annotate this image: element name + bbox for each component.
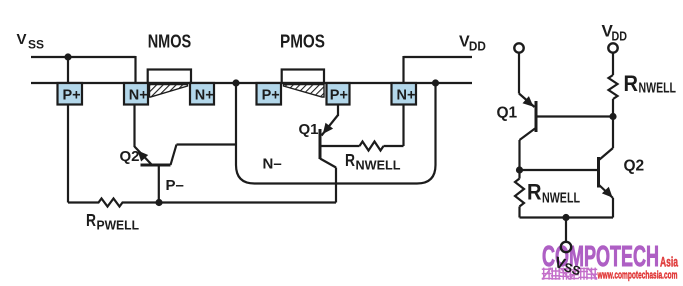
svg-text:N+: N+ <box>397 87 416 103</box>
svg-text:NMOS: NMOS <box>148 32 192 52</box>
svg-text:SS: SS <box>28 38 44 52</box>
svg-text:N+: N+ <box>195 87 214 103</box>
svg-text:Q1: Q1 <box>299 121 319 138</box>
svg-text:Q2: Q2 <box>120 148 140 165</box>
svg-text:P+: P+ <box>330 87 348 103</box>
svg-text:P+: P+ <box>262 87 280 103</box>
svg-text:N+: N+ <box>129 87 148 103</box>
svg-text:R: R <box>86 210 96 230</box>
svg-text:Asia: Asia <box>660 254 678 269</box>
svg-text:DD: DD <box>612 30 628 44</box>
svg-text:NWELL: NWELL <box>542 191 580 207</box>
svg-text:NWELL: NWELL <box>639 81 677 97</box>
svg-text:R: R <box>624 71 639 96</box>
svg-text:NWELL: NWELL <box>356 158 401 173</box>
svg-text:R: R <box>527 180 542 205</box>
svg-text:P+: P+ <box>63 87 81 103</box>
svg-text:N–: N– <box>263 156 282 173</box>
svg-text:PMOS: PMOS <box>280 32 325 52</box>
svg-text:Q2: Q2 <box>624 158 645 175</box>
svg-text:V: V <box>17 31 27 48</box>
svg-text:R: R <box>345 150 355 170</box>
svg-text:PWELL: PWELL <box>97 218 140 233</box>
svg-text:www.compotechasia.com: www.compotechasia.com <box>597 270 678 282</box>
svg-text:P–: P– <box>166 177 184 194</box>
svg-text:DD: DD <box>469 40 486 54</box>
svg-text:Q1: Q1 <box>497 105 518 122</box>
